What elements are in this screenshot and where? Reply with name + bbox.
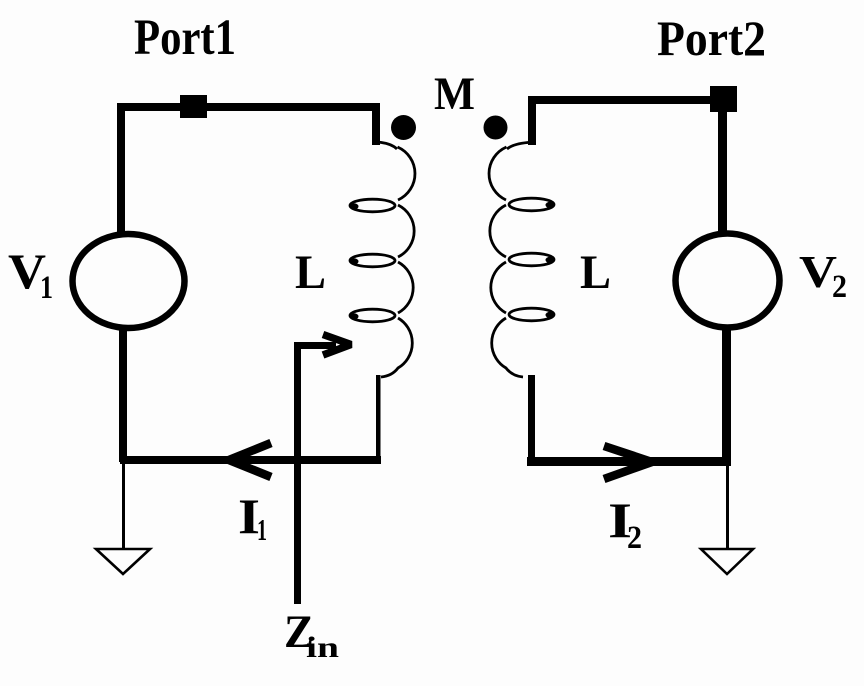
inductor L right: bottom lead wire	[528, 375, 535, 464]
polarity dot left	[391, 115, 416, 140]
svg-text:2: 2	[627, 520, 642, 556]
current arrow I1	[229, 443, 271, 477]
svg-text:in: in	[306, 631, 339, 664]
inductor L left: loop ellipses	[350, 199, 395, 322]
svg-text:L: L	[580, 246, 611, 299]
label I2	[608, 492, 642, 556]
wire V2 top vertical	[718, 104, 727, 233]
inductor L right: top lead	[528, 96, 536, 145]
inductor L left: coil arcs	[381, 147, 415, 377]
wire bottom left horizontal	[120, 456, 381, 464]
inductor L left: bottom lead wire	[376, 375, 381, 460]
inductor L left: loop tip blobs	[350, 203, 359, 319]
label V2	[799, 246, 847, 305]
voltage source V1	[73, 234, 185, 328]
label Zin	[284, 606, 339, 664]
node Port2 terminal	[710, 86, 737, 112]
impedance arrow Zin horizontal + head	[294, 335, 351, 356]
impedance arrow Zin vertical line	[294, 345, 301, 604]
inductor L right: loop ellipses	[509, 198, 554, 321]
inductor L right: loop tip blobs	[546, 202, 555, 318]
svg-text:1: 1	[257, 512, 267, 547]
svg-text:1: 1	[40, 270, 53, 306]
wire V1 top vertical	[117, 103, 125, 234]
label I1	[238, 488, 267, 547]
wire bottom right horizontal	[527, 457, 731, 466]
svg-text:M: M	[434, 68, 475, 120]
ground left	[96, 549, 150, 574]
svg-text:Port2: Port2	[657, 10, 766, 66]
voltage source V2	[676, 234, 780, 328]
label V1	[8, 243, 53, 306]
wire left ground lead	[122, 461, 125, 549]
wire V1 bottom vertical	[119, 328, 127, 462]
svg-text:Port1: Port1	[134, 10, 236, 66]
node Port1 terminal	[180, 95, 207, 118]
inductor L left: top lead	[372, 103, 380, 145]
wire top right horizontal	[528, 96, 731, 104]
polarity dot right	[484, 116, 508, 140]
svg-text:L: L	[295, 246, 326, 299]
current arrow I2	[604, 446, 652, 479]
inductor L right: coil arcs	[489, 147, 523, 377]
ground right	[701, 549, 753, 574]
wire top left horizontal	[117, 103, 379, 111]
wire right ground lead	[726, 461, 729, 549]
wire V2 bottom vertical	[722, 328, 731, 464]
svg-text:2: 2	[832, 269, 847, 305]
